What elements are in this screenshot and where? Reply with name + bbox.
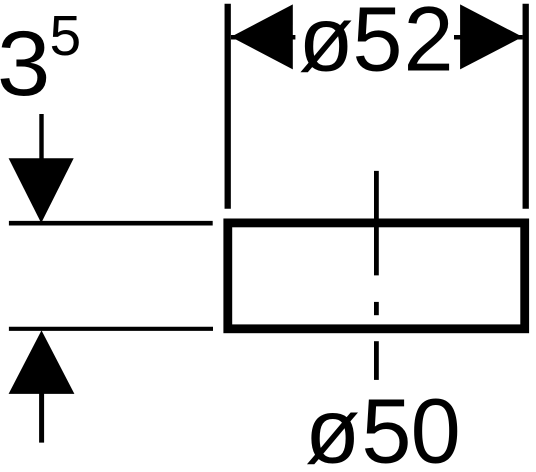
svg-text:5: 5 [50, 4, 82, 68]
svg-text:ø50: ø50 [305, 381, 461, 472]
svg-text:ø52: ø52 [299, 0, 454, 91]
svg-text:3: 3 [0, 12, 50, 115]
